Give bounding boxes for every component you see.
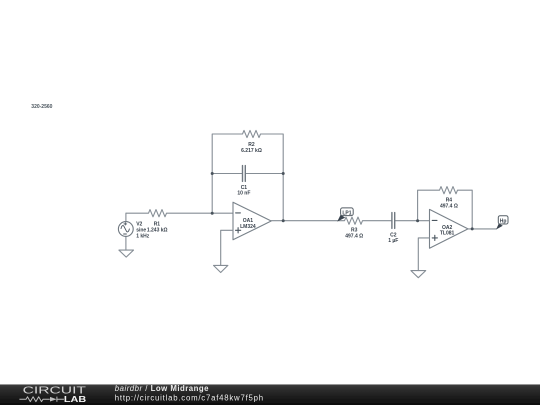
svg-text:6.217 kΩ: 6.217 kΩ — [241, 148, 262, 154]
svg-text:LP1: LP1 — [342, 210, 351, 216]
svg-text:10 nF: 10 nF — [237, 190, 250, 196]
svg-text:http://circuitlab.com/c7af48kw: http://circuitlab.com/c7af48kw7f5ph — [115, 393, 264, 402]
svg-text:R2: R2 — [248, 142, 255, 148]
svg-text:LM324: LM324 — [240, 224, 256, 230]
svg-text:R1: R1 — [154, 221, 161, 227]
svg-text:bairdbr / Low Midrange: bairdbr / Low Midrange — [115, 384, 209, 393]
svg-text:320-2560: 320-2560 — [31, 104, 52, 110]
svg-text:Hp: Hp — [500, 219, 507, 225]
svg-text:sine: sine — [136, 228, 146, 234]
svg-text:1.243 kΩ: 1.243 kΩ — [147, 228, 168, 234]
svg-text:LAB: LAB — [64, 395, 87, 404]
svg-text:1 kHz: 1 kHz — [136, 234, 150, 240]
svg-text:497.4 Ω: 497.4 Ω — [440, 203, 458, 209]
svg-text:1 µF: 1 µF — [388, 238, 398, 244]
svg-text:TL081: TL081 — [440, 231, 455, 237]
svg-text:V2: V2 — [136, 221, 142, 227]
svg-text:497.4 Ω: 497.4 Ω — [345, 233, 363, 239]
